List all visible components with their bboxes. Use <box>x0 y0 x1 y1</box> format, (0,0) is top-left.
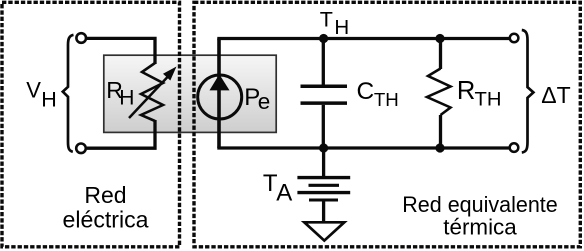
node dot bottom of R_TH <box>435 143 444 152</box>
capacitor C_TH top lead <box>322 39 325 85</box>
svg-text:C: C <box>357 78 375 105</box>
label R_H <box>106 77 134 110</box>
resistor R_TH leads <box>439 39 442 70</box>
svg-text:V: V <box>26 77 41 102</box>
svg-text:H: H <box>119 87 134 110</box>
node dot top of R_TH <box>435 34 444 43</box>
dashed box: Red eléctrica <box>2 2 180 247</box>
svg-text:térmica: térmica <box>443 214 517 239</box>
terminal top-left <box>76 33 86 43</box>
top wire of thermal network <box>217 37 509 40</box>
battery plate medium <box>309 184 340 187</box>
arrowhead inside P_e <box>210 74 230 90</box>
resistor R_H (zigzag) <box>141 63 163 121</box>
svg-text:e: e <box>258 89 271 114</box>
bottom wire of thermal network <box>217 146 509 149</box>
label R_TH <box>457 77 502 110</box>
svg-text:Red: Red <box>84 182 126 208</box>
wire: P_e loop left vertical <box>217 39 221 149</box>
resistor R_TH zigzag <box>427 69 451 116</box>
svg-text:TH: TH <box>374 89 399 110</box>
terminal bottom-left <box>76 144 86 154</box>
label T_A <box>263 170 292 207</box>
svg-text:eléctrica: eléctrica <box>63 207 149 233</box>
svg-text:TH: TH <box>475 88 502 110</box>
caption: Red eléctrica <box>63 182 149 232</box>
svg-text:ΔT: ΔT <box>541 82 570 108</box>
node dot bottom of C_TH <box>319 143 328 152</box>
heater gray box <box>104 55 276 132</box>
brace for ΔT <box>522 30 534 153</box>
capacitor bottom lead <box>322 105 325 148</box>
dashed box: Red equivalente térmica <box>194 2 580 247</box>
svg-text:A: A <box>276 180 292 207</box>
battery plate short <box>309 198 338 201</box>
label V_H <box>26 77 56 111</box>
capacitor plates <box>301 84 348 88</box>
battery plate long 2 <box>297 191 350 194</box>
battery lead to ground <box>322 201 325 221</box>
wire: R_H to bottom-left terminal <box>87 120 155 148</box>
terminal top-right <box>510 34 519 43</box>
ground symbol <box>304 222 344 240</box>
caption: Red equivalente térmica <box>402 192 558 239</box>
battery plate long 1 <box>297 176 350 179</box>
label T_H <box>320 7 349 38</box>
label C_TH <box>357 78 399 110</box>
svg-text:T: T <box>320 7 333 31</box>
arrow through R_H (variable) <box>129 67 177 119</box>
label P_e <box>244 84 270 114</box>
current source P_e circle <box>198 75 242 119</box>
battery T_A lead from node <box>322 148 325 176</box>
terminal bottom-right <box>510 143 519 152</box>
svg-text:H: H <box>41 87 57 111</box>
brace for V_H <box>63 35 74 152</box>
svg-text:H: H <box>334 16 349 39</box>
node T_H dot <box>319 34 328 43</box>
wire: top-left terminal to R_H <box>87 38 155 64</box>
svg-text:R: R <box>457 77 475 105</box>
